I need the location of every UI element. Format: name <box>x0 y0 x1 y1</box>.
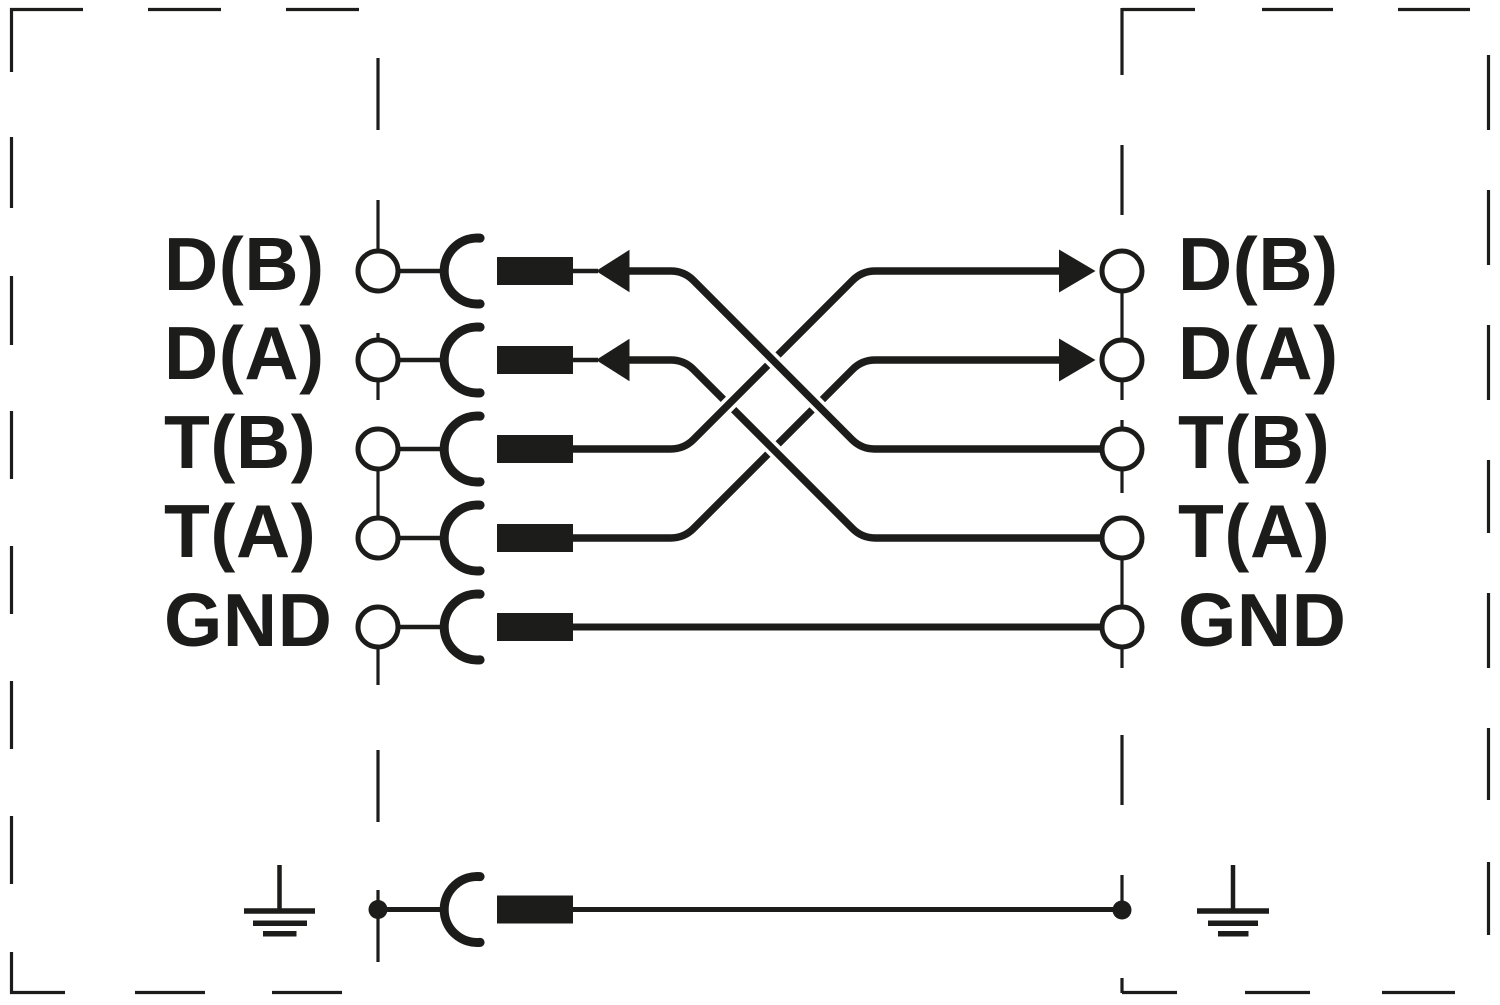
shield wire across <box>573 907 1122 912</box>
ground symbol right <box>1197 865 1269 934</box>
contact arc T(A) <box>444 505 480 571</box>
ferrule GND <box>497 613 573 641</box>
terminal circle left T(B) <box>358 429 398 469</box>
terminal circle left GND <box>358 607 398 647</box>
contact arc D(A) <box>444 327 480 393</box>
terminal circle left T(A) <box>358 518 398 558</box>
arrowhead left D(A) <box>596 339 630 381</box>
ferrule D(B) <box>497 257 573 285</box>
junction dot left <box>369 900 388 919</box>
svg-text:T(A): T(A) <box>164 489 316 573</box>
svg-text:D(B): D(B) <box>1178 222 1339 306</box>
shield ferrule <box>497 896 573 924</box>
shield contact arc <box>444 877 480 943</box>
arrowhead right D(A) <box>1059 339 1096 382</box>
arrowhead left D(B) <box>596 250 630 292</box>
svg-text:T(B): T(B) <box>1178 400 1330 484</box>
svg-text:T(A): T(A) <box>1178 489 1330 573</box>
wire D(B)-left to T(B)-right (crossover) <box>630 271 1102 449</box>
ferrule D(A) <box>497 346 573 374</box>
left connector dashed pin line (bus x=378) <box>376 58 379 962</box>
svg-text:D(A): D(A) <box>1178 311 1339 395</box>
svg-text:T(B): T(B) <box>164 400 316 484</box>
ferrule T(A) <box>497 524 573 552</box>
terminal circle left D(A) <box>358 340 398 380</box>
contact arc GND <box>444 594 480 660</box>
svg-text:GND: GND <box>1178 578 1346 662</box>
wire D(A)-left to T(A)-right (crossover) <box>630 360 1102 538</box>
right connector dashed pin line (bus x=1122) <box>1120 8 1123 993</box>
wire GND straight <box>573 624 1101 631</box>
wire left GND circle to contact <box>378 625 447 630</box>
wire left D(B) circle to contact <box>378 269 447 274</box>
terminal circle right D(A) <box>1102 340 1142 380</box>
ground symbol left <box>244 865 315 934</box>
wire T(B)-left to D(B)-right (crossover) <box>573 271 1060 449</box>
terminal circle right D(B) <box>1102 251 1142 291</box>
svg-text:GND: GND <box>164 578 332 662</box>
ferrule T(B) <box>497 435 573 463</box>
contact arc D(B) <box>444 238 480 304</box>
junction dot right <box>1113 901 1132 920</box>
svg-text:D(B): D(B) <box>164 222 325 306</box>
wire left D(A) circle to contact <box>378 358 447 363</box>
terminal circle right T(A) <box>1102 518 1142 558</box>
wire T(A)-left to D(A)-right (crossover) <box>573 360 1060 538</box>
left device dashed frame <box>10 8 359 993</box>
arrowhead right D(B) <box>1059 250 1096 293</box>
wire ferrule to arrow D(B) <box>573 269 598 274</box>
right device dashed frame <box>1122 10 1489 993</box>
wire left T(B) circle to contact <box>378 447 447 452</box>
svg-text:D(A): D(A) <box>164 311 325 395</box>
contact arc T(B) <box>444 416 480 482</box>
shield wire left junction to contact <box>378 907 447 912</box>
terminal circle left D(B) <box>358 251 398 291</box>
terminal circle right T(B) <box>1102 429 1142 469</box>
wire ferrule to arrow D(A) <box>573 358 598 363</box>
wire left T(A) circle to contact <box>378 536 447 541</box>
terminal circle right GND <box>1102 607 1142 647</box>
